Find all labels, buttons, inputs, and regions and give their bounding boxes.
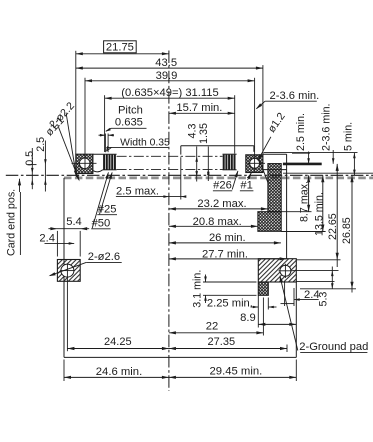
- reference line right of body (card end extension): [283, 172, 373, 174]
- leader for 2-ø2.2: [66, 113, 76, 177]
- svg-text:2.25 min.: 2.25 min.: [207, 297, 253, 309]
- contact row phantom line top (dash-dot): [117, 155, 223, 157]
- bottom-right ground pad (diagonal hatched) with hole: [258, 259, 296, 282]
- vertical center line (dash-dot): [168, 51, 170, 392]
- extension lines 5.4 (pad edges): [56, 231, 58, 257]
- svg-text:13.5 min.: 13.5 min.: [313, 192, 325, 236]
- svg-text:2.4: 2.4: [39, 233, 55, 245]
- svg-text:27.35: 27.35: [208, 336, 236, 348]
- extension small pad left edge down: [257, 295, 259, 327]
- extension line x=262.9 (pad #1 right edge): [262, 65, 264, 154]
- extension small pad center down: [262, 298, 264, 336]
- card outline bottom edge: [64, 356, 296, 358]
- svg-text:21.75: 21.75: [106, 41, 134, 53]
- extension line x=104.6 (first contact): [104, 95, 106, 152]
- right contact pad comb #26 end: [223, 154, 237, 170]
- extension line x=254.6 (hole #1 center): [254, 78, 256, 172]
- svg-text:22: 22: [206, 321, 218, 333]
- dimension 15.7 min line: [169, 112, 235, 114]
- svg-text:#26: #26: [213, 180, 232, 192]
- svg-text:Pitch: Pitch: [118, 104, 143, 116]
- card outline left edge: [63, 178, 65, 358]
- svg-text:5.3: 5.3: [318, 292, 330, 307]
- extension from hole center down: [284, 282, 286, 306]
- svg-text:2-3.6 min.: 2-3.6 min.: [270, 90, 320, 102]
- extension from big pad bottom right: [296, 281, 334, 283]
- svg-text:2.5 max.: 2.5 max.: [116, 186, 159, 198]
- label Width 0.35: [106, 137, 170, 151]
- extension from hole center right: [293, 270, 339, 272]
- svg-text:8.9: 8.9: [240, 312, 256, 324]
- leader #50: [92, 173, 108, 229]
- ground tab contact line (thick): [283, 163, 322, 166]
- svg-text:26.85: 26.85: [341, 217, 353, 244]
- body outline right of pad #1: [263, 154, 287, 169]
- dimension 43.5 line: [76, 67, 263, 69]
- pad #1 (cross-hatched square with hole): [246, 155, 265, 173]
- dimension 21.75 (boxed) line: [76, 53, 169, 55]
- extension card right edge down: [295, 360, 297, 382]
- leader segment near pad #1: [260, 161, 269, 184]
- ground pad L-shape foot (cross-hatched): [258, 212, 281, 232]
- svg-text:39.9: 39.9: [156, 70, 178, 82]
- svg-text:Width 0.35: Width 0.35: [120, 137, 170, 148]
- card end position line (thick gray dashed): [64, 177, 373, 180]
- svg-text:2-Ground pad: 2-Ground pad: [299, 341, 368, 353]
- ticks for 0.5 / 2.5 dims: [28, 164, 37, 166]
- leader #26: [232, 171, 238, 190]
- svg-text:(0.635×49=) 31.115: (0.635×49=) 31.115: [121, 87, 218, 99]
- dimension 39.9 line: [85, 80, 255, 82]
- body outline right edge (vertical): [286, 170, 288, 259]
- extension line x=234.7 (last contact): [234, 95, 236, 153]
- leader for ø1.1: [58, 125, 80, 181]
- dimension 21.75 boxed text: [104, 41, 137, 54]
- svg-text:1.35: 1.35: [198, 123, 210, 144]
- pitch extension lines (teeth): [104, 134, 106, 153]
- left contact pad comb #50-#25: [93, 154, 117, 172]
- extension from big pad top right: [296, 259, 340, 261]
- leader #25: [100, 173, 113, 215]
- leader #1: [248, 173, 252, 180]
- svg-text:2-3.6 min.: 2-3.6 min.: [320, 103, 332, 151]
- small ground pad (cross-hatched): [258, 282, 268, 295]
- svg-text:5.4: 5.4: [66, 216, 82, 228]
- bottom-left pad (diagonal hatched) with hole 2-ø2.6: [57, 260, 80, 282]
- left mounting pad (cross-hatched square): [72, 154, 97, 173]
- extension line x=75.8 (left pad left edge): [75, 51, 77, 154]
- svg-text:0.5: 0.5: [24, 151, 36, 166]
- extension x=287 down: [286, 345, 288, 353]
- extension card left edge down: [63, 360, 65, 382]
- svg-text:Card end pos.: Card end pos.: [6, 189, 18, 256]
- leader ø1.2: [258, 137, 271, 160]
- extension line x=180.8 below window: [180, 157, 182, 199]
- leader 2-ø2.6: [50, 262, 86, 275]
- extension hole center to 24.25: [66, 264, 68, 352]
- svg-text:2-ø2.6: 2-ø2.6: [88, 251, 120, 263]
- svg-text:43.5: 43.5: [155, 57, 177, 69]
- card end pos. arrow: [19, 179, 21, 192]
- extension line x=85 (left hole center): [84, 78, 86, 169]
- extension line y=288.8 right: [300, 288, 356, 290]
- svg-text:23.2 max.: 23.2 max.: [197, 198, 246, 210]
- extension line from foot bottom: [281, 231, 325, 233]
- svg-text:0.635: 0.635: [115, 117, 143, 129]
- svg-text:3.1 min.: 3.1 min.: [192, 270, 204, 308]
- svg-text:24.6 min.: 24.6 min.: [96, 366, 142, 378]
- svg-text:26 min.: 26 min.: [209, 232, 246, 244]
- reference line at pad top extended right: [264, 152, 358, 154]
- svg-text:15.7 min.: 15.7 min.: [176, 102, 222, 114]
- dimension 31.115 line: [105, 97, 235, 99]
- label Pitch 0.635: [105, 104, 146, 131]
- contact row phantom line bottom (dash-dot): [117, 168, 223, 170]
- svg-text:29.45 min.: 29.45 min.: [210, 365, 263, 377]
- svg-text:2.5 min.: 2.5 min.: [295, 113, 307, 151]
- pitch dimension arrows: [99, 134, 106, 136]
- center axis line (horizontal dash-dot): [6, 174, 373, 176]
- extension line from foot top: [281, 211, 311, 213]
- ground pad L-shape vertical bar (cross-hatched): [268, 164, 281, 212]
- leader 2-Ground pad to big pad: [280, 277, 298, 351]
- svg-text:5 min.: 5 min.: [343, 122, 355, 151]
- contact window outline (raised rectangle): [181, 146, 254, 155]
- card outline right edge: [295, 282, 297, 357]
- svg-text:4.3: 4.3: [187, 124, 199, 139]
- svg-text:#1: #1: [240, 180, 252, 192]
- leader for 2-3.6 min. top: [257, 101, 266, 108]
- svg-text:24.25: 24.25: [104, 336, 132, 348]
